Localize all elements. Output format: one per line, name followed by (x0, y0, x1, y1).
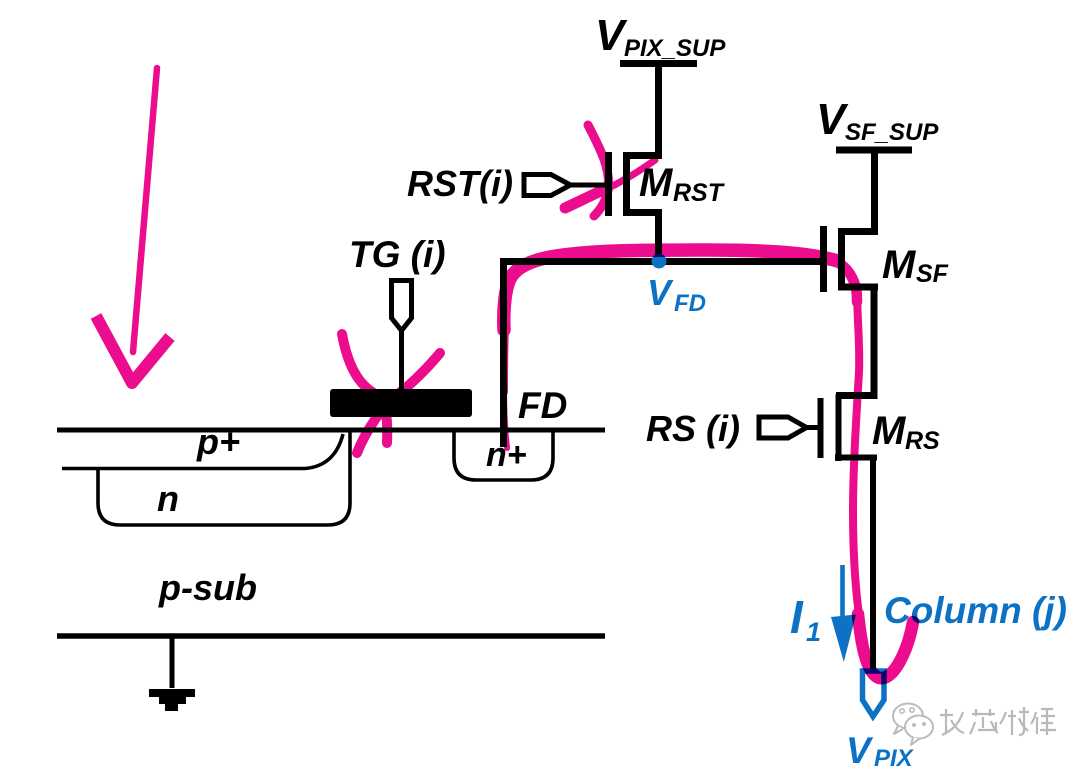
annotation X over MRST stroke 1 (588, 125, 609, 216)
annotation light arrow head (96, 316, 170, 383)
ground wire (170, 636, 175, 688)
svg-text:RST: RST (673, 179, 726, 207)
svg-text:M: M (872, 409, 907, 453)
RST(i) gate wire (566, 183, 605, 188)
svg-text:I: I (790, 591, 804, 643)
column wire (870, 457, 876, 672)
annotation X over MRST stroke 2 (565, 191, 601, 208)
VPIX terminal (863, 671, 885, 717)
annotation signal path bottom hook (858, 614, 913, 678)
svg-text:RS: RS (905, 427, 940, 455)
svg-text:RST(i): RST(i) (407, 163, 513, 204)
p+ layer boundary (62, 434, 343, 469)
wire FD to MSF gate (504, 262, 821, 448)
surface line (57, 428, 605, 433)
svg-text:SF: SF (916, 260, 949, 288)
svg-text:SF_SUP: SF_SUP (845, 119, 939, 146)
annotation X over TG stroke 2 (357, 353, 440, 453)
supply VPIX_SUP bar (620, 60, 697, 67)
RS(i) terminal flag (759, 417, 807, 438)
svg-text:1: 1 (806, 617, 821, 647)
wire VSF_SUP to MSF drain (838, 150, 875, 232)
ground symbol (149, 689, 195, 711)
substrate line (57, 633, 605, 639)
wire MSF source to MRS drain (836, 287, 874, 396)
svg-text:n: n (157, 478, 179, 519)
svg-text:M: M (882, 243, 917, 287)
annotation signal path column descent (853, 296, 862, 635)
svg-text:PIX_SUP: PIX_SUP (624, 35, 726, 62)
transistor MRST (609, 152, 663, 216)
n+ diffusion (floating diffusion) (454, 431, 553, 480)
svg-text:TG (i): TG (i) (349, 234, 446, 275)
annotation X over TG stroke 1 (342, 334, 387, 443)
svg-text:V: V (647, 272, 674, 313)
supply VSF_SUP bar (836, 147, 912, 154)
annotation light arrow shaft (133, 68, 157, 352)
wire MRST source to VFD node (655, 212, 662, 262)
transistor MRS (821, 394, 878, 461)
RST(i) terminal flag (524, 175, 571, 196)
svg-text:p+: p+ (196, 421, 240, 462)
svg-text:FD: FD (674, 290, 706, 317)
watermark wechat icon (893, 704, 933, 746)
annotation signal path FD to MSF (504, 388, 507, 448)
wire VPIX_SUP to MRST drain (623, 63, 659, 156)
n-well boundary (98, 431, 350, 525)
transfer gate TG electrode (330, 389, 472, 417)
node VFD dot (652, 254, 667, 269)
watermark text (940, 707, 1056, 735)
svg-text:RS (i): RS (i) (646, 408, 740, 449)
svg-text:V: V (846, 730, 874, 771)
svg-text:p-sub: p-sub (158, 567, 257, 608)
TG terminal (392, 281, 412, 331)
current I1 arrow (831, 565, 856, 662)
svg-text:PIX: PIX (874, 745, 915, 772)
transistor MSF (824, 226, 879, 292)
RS(i) gate wire (803, 425, 818, 430)
svg-text:FD: FD (518, 385, 567, 426)
TG stem wire (399, 328, 404, 390)
